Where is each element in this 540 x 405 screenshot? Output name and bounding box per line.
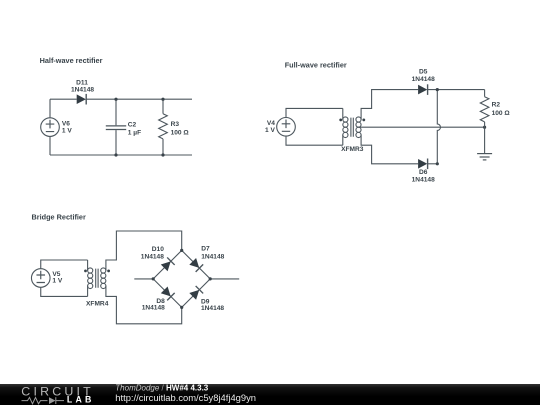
svg-text:1N4148: 1N4148 <box>71 87 94 94</box>
voltage source V5 <box>31 269 50 288</box>
wire top left <box>50 98 77 100</box>
wire D5 to R2 <box>428 89 485 91</box>
label D7 <box>201 246 224 261</box>
label D11 <box>71 80 94 94</box>
node dots full-wave <box>436 88 487 165</box>
svg-text:XFMR4: XFMR4 <box>86 300 109 307</box>
label V5 value <box>52 271 62 285</box>
svg-text:D6: D6 <box>419 169 428 176</box>
wire secondary top to bridge <box>106 231 182 271</box>
wire secondary bottom <box>361 135 418 164</box>
svg-text:http://circuitlab.com/c5y8j4fj: http://circuitlab.com/c5y8j4fj4g9yn <box>115 392 256 403</box>
capacitor C2 <box>106 99 126 155</box>
label D9 <box>201 298 224 312</box>
resistor R2 <box>480 90 489 128</box>
svg-text:1 µF: 1 µF <box>128 129 141 136</box>
wire secondary top <box>361 90 418 120</box>
svg-text:1N4148: 1N4148 <box>141 253 164 260</box>
wire bottom <box>50 154 192 156</box>
node dots bridge <box>152 249 212 309</box>
svg-text:Half-wave rectifier: Half-wave rectifier <box>40 56 103 65</box>
wire V6 top lead <box>49 99 51 118</box>
wire to ground <box>484 127 486 153</box>
wire center tap <box>360 126 485 128</box>
svg-text:C2: C2 <box>128 122 137 129</box>
label C2 <box>128 122 141 137</box>
bridge diamond wires <box>153 250 210 307</box>
svg-text:1 V: 1 V <box>265 127 275 134</box>
diode D6 <box>418 159 428 170</box>
svg-text:100 Ω: 100 Ω <box>171 130 190 137</box>
svg-text:1N4148: 1N4148 <box>412 76 435 83</box>
svg-text:1N4148: 1N4148 <box>201 305 224 312</box>
wire top right <box>86 98 192 100</box>
label D10 <box>141 246 164 260</box>
svg-text:1N4148: 1N4148 <box>142 305 165 312</box>
svg-text:R3: R3 <box>171 121 180 128</box>
wire V6 bottom lead <box>49 136 51 155</box>
svg-text:1N4148: 1N4148 <box>201 253 224 260</box>
diode D9 <box>189 286 203 300</box>
label R3 <box>171 121 190 137</box>
label R2 <box>492 102 511 117</box>
svg-text:1 V: 1 V <box>62 127 72 134</box>
svg-text:100 Ω: 100 Ω <box>492 110 511 117</box>
transformer XFMR3 <box>339 108 365 145</box>
wire left stub <box>134 278 153 280</box>
wire right stub <box>210 278 239 280</box>
resistor R3 <box>159 99 168 155</box>
label D8 <box>142 298 165 312</box>
svg-text:Bridge Rectifier: Bridge Rectifier <box>32 212 86 221</box>
diode D10 <box>160 257 174 271</box>
svg-text:1 V: 1 V <box>52 278 62 285</box>
wire V4 bottom lead <box>286 136 343 145</box>
svg-text:R2: R2 <box>492 102 501 109</box>
logo wire with resistor and diode <box>22 397 65 404</box>
voltage source V6 <box>41 118 60 137</box>
svg-text:D10: D10 <box>152 246 164 253</box>
label V6 value <box>62 120 72 134</box>
diode D8 <box>160 286 174 300</box>
wire secondary bottom to bridge <box>106 286 182 324</box>
svg-text:D5: D5 <box>419 69 428 76</box>
svg-text:D7: D7 <box>201 246 210 253</box>
wire junction vertical with hop <box>437 90 440 164</box>
svg-text:1N4148: 1N4148 <box>412 176 435 183</box>
svg-text:Full-wave rectifier: Full-wave rectifier <box>285 61 347 70</box>
wire V4 top lead <box>286 108 343 117</box>
svg-text:ThomDodge / HW#4 4.3.3: ThomDodge / HW#4 4.3.3 <box>115 383 208 392</box>
diode D5 <box>418 84 428 95</box>
transformer XFMR4 <box>84 260 110 296</box>
label V4 value <box>265 120 275 134</box>
wire V5 bottom lead <box>41 287 88 296</box>
wire D6 to junction <box>428 163 438 165</box>
wire V5 top lead <box>41 260 88 269</box>
ground <box>477 154 492 160</box>
svg-text:XFMR3: XFMR3 <box>341 146 364 153</box>
diode D11 <box>77 94 87 105</box>
node dots half-wave <box>114 98 164 157</box>
svg-text:LAB: LAB <box>67 395 95 405</box>
svg-text:V6: V6 <box>62 120 70 127</box>
label D6 <box>412 169 435 183</box>
label D5 <box>412 69 435 83</box>
diode D7 <box>189 258 203 272</box>
voltage source V4 <box>277 118 296 137</box>
